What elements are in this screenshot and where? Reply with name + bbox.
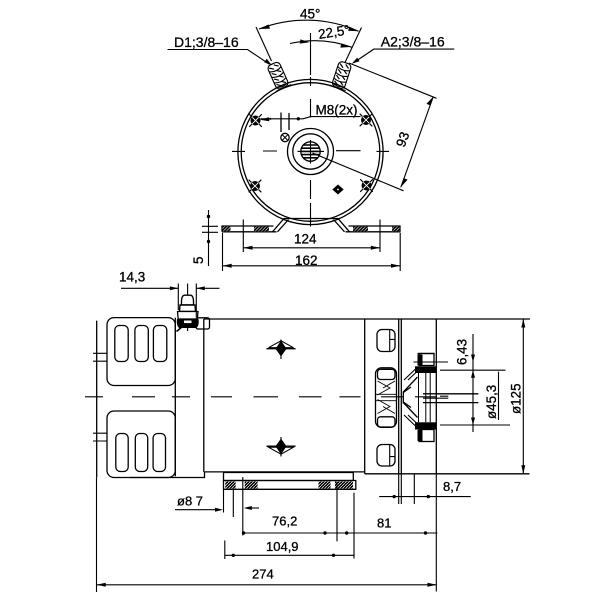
foot arch <box>273 219 350 232</box>
bolt hole top-left <box>249 114 262 127</box>
vent symbol upper <box>267 340 296 360</box>
dimension 5 <box>202 210 218 266</box>
motor inner circle <box>241 83 380 222</box>
dimension 93 <box>349 63 437 98</box>
motor outer circle <box>238 79 383 224</box>
bolt hole bottom-right <box>360 179 373 192</box>
cap slots upper <box>115 326 128 362</box>
mounting foot (front view) <box>222 226 274 232</box>
svg-text:A2;3/8–16: A2;3/8–16 <box>381 34 445 50</box>
end cover plate (left) <box>96 321 98 478</box>
leader A2 <box>354 49 454 62</box>
svg-text:M8(2x): M8(2x) <box>316 103 358 118</box>
terminal stud A2 (right, threaded) <box>329 60 353 90</box>
brush ring band <box>175 318 204 477</box>
stud axis line right <box>345 28 362 63</box>
svg-text:D1;3/8–16: D1;3/8–16 <box>174 34 239 50</box>
small diamond mark <box>332 185 343 195</box>
cap slots lower <box>116 434 128 472</box>
22,5 deg arc <box>290 41 352 48</box>
foot hatch sections <box>223 227 231 232</box>
dimension 162 <box>223 233 401 271</box>
center boss circle <box>288 129 334 175</box>
shaft <box>423 394 478 403</box>
svg-text:6,43: 6,43 <box>455 339 470 365</box>
motor body outline <box>204 318 530 320</box>
mounting foot (side view) <box>224 473 354 481</box>
svg-text:ø8 7: ø8 7 <box>177 494 203 509</box>
shaft flange assembly <box>403 354 436 442</box>
extension lines below <box>96 477 98 592</box>
svg-text:5: 5 <box>191 256 206 264</box>
bearing housing plates <box>399 319 402 474</box>
horizontal centerline <box>232 150 389 153</box>
terminal stud (side view) <box>177 284 199 332</box>
svg-text:45°: 45° <box>300 7 320 22</box>
svg-text:14,3: 14,3 <box>119 270 145 285</box>
vent symbol lower <box>267 437 296 457</box>
center boss inner circle <box>293 134 328 169</box>
svg-text:76,2: 76,2 <box>272 514 297 529</box>
stud axis line left <box>256 27 272 61</box>
vertical centerline <box>310 33 312 227</box>
svg-text:ø45,3: ø45,3 <box>484 385 499 419</box>
horizontal centerline <box>85 396 437 398</box>
shaft hole hatched <box>300 142 321 161</box>
terminal stud D1 (left, threaded) <box>265 60 291 91</box>
leader D1 <box>168 50 270 65</box>
dimension 124 <box>243 220 380 253</box>
svg-text:104,9: 104,9 <box>266 539 299 554</box>
small hole with cross <box>281 133 289 141</box>
svg-text:274: 274 <box>252 567 274 582</box>
band bottom step <box>130 472 205 478</box>
bolt hole bottom-left <box>249 180 262 193</box>
brush end cap <box>107 318 175 386</box>
svg-text:81: 81 <box>377 516 391 531</box>
terminal block <box>196 318 210 329</box>
45 deg arc <box>259 20 359 31</box>
svg-text:ø125: ø125 <box>509 383 524 414</box>
svg-text:8,7: 8,7 <box>443 479 461 494</box>
bearing window <box>376 368 397 428</box>
svg-text:124: 124 <box>294 232 317 247</box>
end housing slots <box>377 330 395 352</box>
svg-text:162: 162 <box>295 253 318 268</box>
bolt hole top-right <box>360 114 373 127</box>
